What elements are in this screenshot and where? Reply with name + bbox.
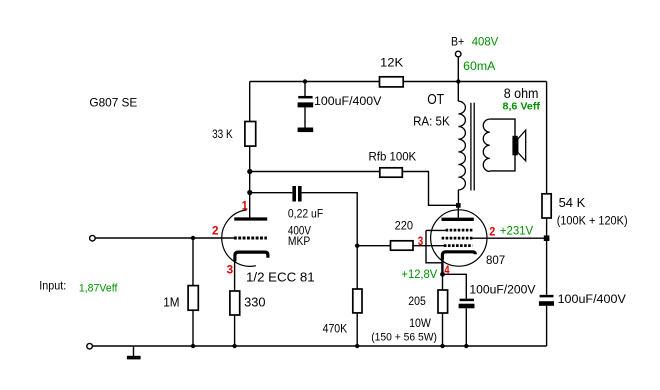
node rail 1M bbox=[191, 344, 195, 348]
svg-text:(150 + 56 5W): (150 + 56 5W) bbox=[371, 331, 437, 343]
resistor 470K bbox=[353, 289, 362, 313]
svg-text:330: 330 bbox=[244, 294, 265, 309]
svg-text:4: 4 bbox=[444, 265, 450, 277]
svg-text:1M: 1M bbox=[163, 295, 179, 310]
resistor Rfb 100K bbox=[380, 168, 403, 177]
svg-text:Input:: Input: bbox=[39, 281, 66, 293]
svg-text:3: 3 bbox=[227, 265, 234, 277]
svg-text:205: 205 bbox=[408, 294, 426, 308]
speaker horn bbox=[518, 130, 526, 161]
svg-text:408V: 408V bbox=[472, 35, 499, 49]
svg-text:220: 220 bbox=[395, 219, 413, 233]
resistor 1M bbox=[188, 286, 198, 311]
tube 807 grid row1 (screen) lead and dots bbox=[426, 229, 446, 231]
node rail 470K bbox=[355, 344, 359, 348]
wire cap1 leads bbox=[304, 82, 306, 128]
node 807 cathode pin4 junction bbox=[440, 272, 445, 277]
svg-text:12K: 12K bbox=[380, 56, 404, 70]
svg-text:1/2 ECC 81: 1/2 ECC 81 bbox=[246, 269, 315, 284]
tube 807 grid row2 dots bbox=[442, 237, 473, 240]
wire top rail B+ bbox=[250, 81, 547, 83]
wire grid stopper run bbox=[357, 245, 444, 247]
svg-text:OT: OT bbox=[427, 91, 444, 108]
capacitor 0.22uF plates bbox=[292, 186, 296, 202]
wire bottom rail bbox=[93, 345, 547, 347]
capacitor C1 ground bar bbox=[298, 128, 314, 133]
tube ECC81 plate bbox=[234, 217, 267, 220]
wire coupling cap run bbox=[250, 193, 358, 346]
svg-text:+12,8V: +12,8V bbox=[401, 269, 437, 281]
resistor 220 bbox=[391, 241, 414, 250]
wire 807 cathode branch bbox=[442, 256, 444, 346]
terminal input bottom bbox=[87, 343, 93, 349]
node grid junction 470K bbox=[355, 244, 359, 248]
svg-text:+231V: +231V bbox=[500, 223, 534, 237]
tube 807 cathode bbox=[442, 252, 475, 260]
svg-text:33 K: 33 K bbox=[212, 127, 233, 141]
svg-text:100uF/400V: 100uF/400V bbox=[314, 94, 382, 108]
capacitor 100uF/200V plates bbox=[460, 299, 474, 302]
tube ECC81 grid bbox=[234, 237, 267, 240]
svg-text:(100K + 120K): (100K + 120K) bbox=[557, 216, 628, 228]
svg-text:100uF/400V: 100uF/400V bbox=[558, 292, 627, 306]
svg-text:1,87Veff: 1,87Veff bbox=[79, 282, 118, 294]
svg-text:8,6 Veff: 8,6 Veff bbox=[503, 100, 541, 112]
svg-text:B+: B+ bbox=[451, 37, 464, 49]
svg-text:1: 1 bbox=[242, 201, 249, 213]
tube ECC81 envelope arc bbox=[222, 210, 256, 266]
wire B+ stem bbox=[457, 57, 459, 81]
svg-text:2: 2 bbox=[489, 227, 495, 239]
svg-text:8 ohm: 8 ohm bbox=[504, 86, 539, 101]
svg-text:807: 807 bbox=[486, 253, 505, 267]
wire transformer primary stubs bbox=[457, 82, 459, 204]
resistor 54K bbox=[542, 194, 551, 218]
resistor 330 bbox=[230, 291, 240, 315]
capacitor 100uF/400V right plates bbox=[540, 295, 554, 298]
node plate ECC81 / 33K junction bbox=[247, 169, 252, 174]
svg-text:2: 2 bbox=[212, 226, 219, 238]
svg-text:10W: 10W bbox=[409, 316, 431, 330]
node cap1 top bbox=[303, 79, 307, 83]
tube 807 beam plate bracket bbox=[426, 230, 443, 262]
node input junction bbox=[191, 236, 195, 240]
svg-text:MKP: MKP bbox=[288, 234, 310, 248]
wire left vertical (33K branch / plate lead) bbox=[249, 82, 251, 218]
svg-text:54 K: 54 K bbox=[559, 195, 586, 210]
svg-text:RA: 5K: RA: 5K bbox=[413, 115, 450, 129]
capacitor C1 100uF/400V plates bbox=[298, 96, 312, 99]
resistor 205 bbox=[438, 290, 448, 313]
svg-text:470K: 470K bbox=[323, 322, 348, 336]
node screen junction right bbox=[544, 235, 550, 241]
svg-text:3: 3 bbox=[418, 236, 424, 248]
tube 807 plate bbox=[442, 218, 474, 221]
wire secondary loop bbox=[490, 119, 515, 171]
tube ECC81 cathode bbox=[235, 252, 268, 261]
svg-text:60mA: 60mA bbox=[463, 59, 495, 73]
wire input bbox=[95, 237, 234, 239]
node rail 330 bbox=[232, 344, 236, 348]
svg-text:Rfb 100K: Rfb 100K bbox=[369, 150, 417, 164]
node rail 205 bbox=[440, 344, 444, 348]
wire 807 cathode bypass run bbox=[443, 274, 467, 346]
node 807 plate junction bbox=[456, 203, 461, 208]
wire 1M branch bbox=[192, 238, 194, 346]
wire Rfb feedback run bbox=[250, 172, 457, 206]
transformer secondary winding bbox=[483, 119, 490, 171]
resistor 33K bbox=[245, 122, 256, 147]
tube 807 grid row3 dots bbox=[444, 244, 473, 247]
resistor 12K bbox=[380, 77, 404, 87]
terminal B+ bbox=[455, 51, 461, 57]
terminal input top bbox=[90, 235, 96, 241]
ground symbol bbox=[133, 346, 135, 356]
svg-text:100uF/200V: 100uF/200V bbox=[469, 282, 536, 296]
wire ECC81 cathode lead bbox=[234, 259, 236, 346]
speaker driver bbox=[512, 136, 517, 156]
transformer core bbox=[471, 103, 474, 191]
transformer OT primary winding bbox=[458, 101, 465, 190]
svg-text:G807 SE: G807 SE bbox=[89, 96, 137, 110]
tube 807 envelope bbox=[431, 210, 487, 266]
wire 807 plate stem bbox=[457, 205, 459, 218]
node B+ junction bbox=[456, 79, 460, 83]
wire right branch bbox=[546, 82, 548, 347]
svg-text:0,22 uF: 0,22 uF bbox=[288, 207, 324, 221]
node rail 200V cap bbox=[464, 344, 468, 348]
node pin1 coupling junction bbox=[247, 190, 252, 195]
wire 807 screen +231V run bbox=[472, 237, 546, 239]
tube 807 cathode thick lead bbox=[441, 256, 443, 273]
